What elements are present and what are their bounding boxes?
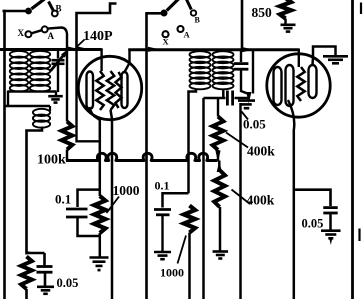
V2 inner loop — [286, 65, 294, 106]
B+ rail from top — [241, 0, 244, 50]
wire: V2 cathode lead curving down — [288, 100, 294, 299]
tube V2 envelope — [267, 54, 330, 117]
wire: from S1 contact A down to bus — [48, 28, 67, 51]
capacitor 0.1 (right) plates — [154, 208, 171, 211]
ground (output cap) — [321, 229, 341, 232]
antenna coil primary L1 — [10, 51, 28, 58]
edge stub bottom right — [358, 229, 360, 242]
wire: B-rail x=76.5 (top elbow to top edge) — [77, 4, 117, 50]
switch S1 closed blade X-A — [31, 30, 42, 33]
wire: IF secondary bottom lead — [222, 89, 225, 99]
wire: branch to 0.05 cap — [27, 252, 45, 255]
svg-text:A: A — [48, 31, 55, 41]
svg-text:400k: 400k — [247, 144, 275, 159]
wire: node drop from bus — [252, 50, 254, 94]
svg-text:A: A — [184, 30, 191, 40]
wire: B-rail down to cathode link — [75, 48, 77, 143]
tube V1 envelope — [78, 56, 141, 119]
IF transformer secondary L4 — [213, 51, 234, 58]
leader 0.05 — [242, 112, 249, 120]
wire: 0.1 cap bottom link — [78, 217, 100, 236]
ground below tuning node — [55, 92, 57, 96]
svg-text:0.1: 0.1 — [155, 179, 170, 193]
switch S1 contact X — [25, 31, 31, 37]
IF trimmer capacitor plates — [234, 62, 249, 65]
junction blob at grid node — [246, 92, 251, 104]
leader 1000 (right) — [178, 236, 187, 264]
svg-text:0.05: 0.05 — [57, 276, 79, 290]
resistor (osc grid leak) bottom-left — [21, 257, 32, 290]
wire: trimmer bottom elbow — [241, 69, 248, 93]
V1 grid 1 — [96, 71, 103, 110]
V2 grid zigzag — [297, 67, 304, 101]
junction at B+ rail — [242, 47, 254, 52]
wire: IF trimmer below bus — [240, 50, 242, 62]
wire: oscillator coil top feed y=106 — [4, 105, 51, 107]
svg-text:B: B — [56, 4, 62, 14]
wire: branch to 0.05 output cap — [294, 190, 331, 206]
wire: V1 plate lead up — [125, 49, 130, 72]
leader 400k (lower) — [232, 190, 251, 205]
resistor 1000 (left) — [94, 196, 105, 233]
capacitor 0.05 (output) plates — [323, 206, 337, 209]
rail x=203.5 down — [202, 98, 205, 299]
junctions at AVC bus / 400k chain — [217, 150, 220, 161]
svg-text:0.1: 0.1 — [55, 192, 71, 207]
svg-text:400k: 400k — [247, 193, 275, 208]
wire: 850 to ground — [284, 19, 287, 25]
svg-text:1000: 1000 — [113, 183, 140, 198]
wire: output cap to ground — [329, 213, 332, 230]
right B+ rail — [351, 0, 354, 299]
svg-text:X: X — [18, 28, 25, 38]
wire: left coil bottom down-left — [7, 91, 9, 108]
V1 grid 2 — [107, 71, 114, 110]
wire: switch1 armature feed — [3, 10, 28, 13]
wire: tuning cap branch — [57, 50, 59, 59]
switch S2 contact B — [191, 10, 196, 15]
wire: bus into V1 grid — [100, 48, 102, 71]
oscillator coil L5 — [49, 106, 51, 111]
wire: grid coupling run y=98 — [204, 97, 226, 100]
ground (0.1 right) — [154, 251, 171, 254]
wire: 100k rail below bus — [66, 50, 68, 122]
wire: grid bus y=49.5 — [0, 48, 102, 51]
wire: tuning cap to coil-bottom node — [57, 64, 59, 92]
switch S1 blade to off-frame — [32, 0, 45, 9]
wire: coupling cap to node — [235, 97, 249, 100]
wire: 100k bottom elbow to AVC bus — [66, 150, 69, 161]
junction at 0.05 branch (bottom left) — [25, 251, 34, 255]
svg-text:140P: 140P — [83, 29, 113, 44]
ground (bottom left cap) — [37, 285, 54, 288]
leader 400k (upper) — [226, 133, 248, 148]
junction on bus at B-rail — [76, 46, 88, 51]
variable capacitor arrow — [51, 54, 65, 71]
switch S2 armature junction — [161, 10, 168, 17]
V2 plate loop — [309, 65, 317, 98]
junction at S2 rail — [148, 47, 160, 52]
switch S1 contact B — [52, 11, 58, 17]
wire: osc coil bottom elbow — [27, 127, 43, 254]
ground (V1 cathode chain) — [90, 256, 109, 259]
resistor 100k — [62, 122, 73, 150]
leader 140P — [76, 40, 85, 48]
wire: 400k chain to ground — [219, 207, 222, 251]
switch S2 contact X — [163, 31, 169, 37]
svg-text:850: 850 — [252, 5, 273, 20]
wire: left rail from switch1 to bottom — [3, 10, 6, 299]
resistor 1000 (right) — [184, 206, 195, 233]
resistor 850 — [280, 0, 291, 19]
rail x=240.5 to bottom — [239, 103, 242, 299]
wire: 400k chain top — [217, 98, 219, 117]
wire: 0.1 cap top branch — [78, 190, 100, 207]
ground (400k chain) — [213, 250, 229, 253]
wire: V1 cathode lead down — [90, 107, 100, 196]
svg-text:1000: 1000 — [160, 266, 184, 280]
ground (V2 plate circuit) — [323, 55, 348, 58]
switch S2 contact B blade — [186, 0, 191, 10]
switch S1 contact A — [42, 26, 48, 32]
switch S1 armature junction — [25, 8, 32, 15]
wire: cathode link y=142 — [77, 140, 101, 142]
junction on bus at A-wire — [66, 46, 78, 51]
switch S2 feed rail x=146.5 — [147, 13, 164, 299]
wire: cap to ground — [44, 272, 47, 286]
V1 plate loop — [122, 72, 128, 108]
variable capacitor (tuning) plates — [52, 59, 65, 62]
capacitor 0.05 (bottom left) plates — [37, 265, 53, 268]
svg-text:X: X — [163, 37, 170, 47]
svg-text:100k: 100k — [37, 153, 66, 168]
switch S2 blade — [167, 0, 179, 11]
switch S1 contact B blade — [49, 2, 54, 12]
resistor 400k (lower) — [218, 161, 221, 171]
svg-text:B: B — [195, 16, 201, 25]
plate wire y=49.8 from V1 to V2 grid — [128, 48, 298, 51]
wire: IF primary bottom elbow — [189, 89, 197, 194]
V2 cathode loop — [274, 67, 282, 105]
leader 1000 (left) — [107, 197, 120, 214]
ground (850) — [281, 23, 296, 26]
capacitor 0.1 (left) plates — [66, 208, 88, 211]
antenna coil secondary L2 — [30, 51, 50, 58]
switch S2 contact A — [178, 26, 184, 32]
wire: coil bottoms y=91.5 — [8, 90, 57, 92]
coupling capacitor plates (vertical) — [226, 91, 229, 106]
svg-text:0.05: 0.05 — [302, 217, 324, 231]
AVC bus y=160.5 with hops — [66, 153, 218, 160]
wire: 0.1 (right) branch — [163, 193, 189, 207]
V1 grid 3 — [116, 72, 122, 108]
edge stub top right — [360, 3, 362, 15]
IF transformer primary L3 — [190, 51, 211, 58]
wire: resistor to ground — [99, 233, 102, 257]
resistor 400k (upper) — [213, 117, 224, 151]
wire: cap to ground — [161, 215, 163, 251]
wire: bus into V2 grid — [298, 49, 300, 68]
grid node bars (bypass) — [238, 99, 255, 102]
V1 cathode loop — [87, 72, 94, 110]
wire: V1 screen lead down — [111, 110, 113, 299]
wire: V2 plate lead to ground — [313, 47, 336, 66]
